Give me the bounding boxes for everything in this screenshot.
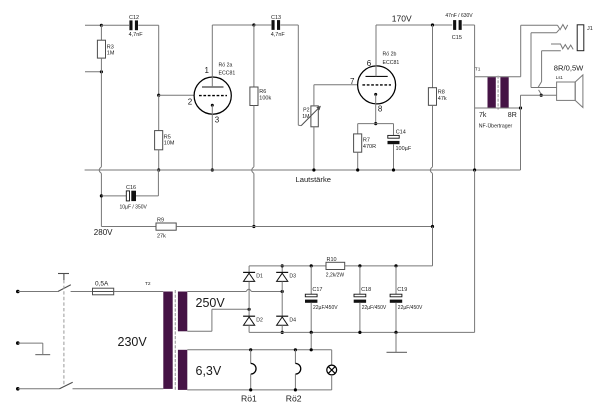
node cathode 1 ground junction [211, 168, 214, 171]
resistor R6 [250, 25, 272, 106]
node D3-D4 junction [281, 290, 284, 293]
svg-text:ECC81: ECC81 [383, 60, 400, 66]
svg-text:0,5A: 0,5A [95, 280, 109, 287]
node input junction lower [100, 70, 103, 73]
wire grid 1 [159, 94, 195, 96]
node T1 secondary bottom junction [519, 106, 522, 109]
label NF-Uebertrager [479, 122, 513, 129]
label Lautstaerke [296, 175, 331, 184]
svg-text:D1: D1 [256, 274, 263, 280]
svg-text:4,7nF: 4,7nF [129, 32, 144, 38]
wire B+ rail right [345, 265, 433, 267]
node R8-280V junction [431, 225, 434, 228]
triode U-Roe2a envelope [194, 77, 231, 114]
wire T1 bottom to ground rail [520, 108, 522, 170]
resistor R7 [354, 124, 376, 170]
node R5 ground junction [157, 168, 160, 171]
diode D1 [243, 266, 263, 282]
loudspeaker Ls1 [557, 75, 583, 108]
svg-text:230V: 230V [118, 335, 148, 349]
svg-text:C12: C12 [129, 15, 139, 21]
wire T1 primary bottom [475, 77, 521, 108]
switch link dashed [63, 280, 65, 385]
svg-text:22µF/450V: 22µF/450V [398, 305, 423, 311]
pin 2 label [188, 98, 193, 107]
switch S1 pole A [58, 285, 93, 292]
wire P2 bottom to ground [313, 127, 315, 170]
svg-text:6,3V: 6,3V [196, 364, 222, 378]
node D3 top junction [281, 264, 284, 267]
svg-text:2: 2 [188, 98, 193, 107]
node 170V-R8 junction [431, 23, 434, 26]
node heater Roe2 top junction [294, 348, 297, 351]
jack J1 sleeve line [542, 50, 561, 52]
svg-text:7: 7 [350, 77, 355, 86]
svg-text:J1: J1 [587, 26, 593, 32]
svg-text:470R: 470R [363, 144, 376, 150]
node cathode 2 junction [374, 122, 377, 125]
capacitor C13 [254, 15, 298, 38]
label tube Roe 2a [219, 63, 236, 77]
wire 280V rail right [176, 226, 432, 228]
label J1 [587, 26, 593, 32]
node mains live terminal [16, 290, 20, 294]
node heater Roe2 bottom junction [294, 388, 297, 391]
node heater Roe1 top junction [249, 348, 252, 351]
svg-text:R6: R6 [259, 89, 266, 95]
node mains earth terminal [16, 341, 20, 345]
cathode Roe2a [211, 104, 214, 170]
svg-text:D4: D4 [289, 317, 296, 323]
svg-text:3: 3 [215, 116, 220, 125]
wire negative to heater rail [310, 332, 312, 349]
grid Roe2a [199, 95, 227, 97]
node C14 ground junction [392, 168, 395, 171]
svg-text:C16: C16 [126, 185, 136, 191]
label 250V [196, 296, 226, 310]
label 6,3V [196, 364, 222, 378]
switch S1 pole B [60, 382, 164, 389]
node heater Roe1 bottom junction [249, 388, 252, 391]
svg-text:R7: R7 [363, 138, 370, 144]
label Roe2 [286, 394, 302, 404]
wire 250V top to bridge [187, 289, 282, 291]
svg-text:22µF/450V: 22µF/450V [313, 305, 338, 311]
wire R6 to 280V rail [252, 106, 254, 227]
label 280V [94, 228, 113, 237]
wire T1 primary bottom to ground junction [474, 108, 476, 170]
svg-text:1M: 1M [302, 114, 309, 120]
svg-text:C13: C13 [271, 15, 281, 21]
heater Roe2 [295, 350, 300, 390]
resistor R9 [156, 218, 176, 240]
ground symbol B- [387, 332, 408, 352]
svg-text:170V: 170V [392, 13, 412, 23]
label Roe1 [241, 394, 257, 404]
svg-text:27k: 27k [157, 234, 166, 240]
capacitor C14 [376, 124, 412, 170]
node C17 top junction [310, 264, 313, 267]
svg-text:R9: R9 [157, 218, 164, 224]
svg-text:100k: 100k [259, 96, 271, 102]
node C19 top junction [394, 264, 397, 267]
svg-text:T1: T1 [475, 67, 481, 73]
label tube Roe 2b [383, 52, 400, 67]
svg-text:280V: 280V [94, 228, 113, 237]
label T2 [145, 281, 151, 287]
node D4 bottom junction [281, 331, 284, 334]
resistor R3 [97, 25, 114, 72]
wire mains live [18, 291, 58, 293]
svg-text:8R: 8R [508, 112, 517, 119]
wire speaker lower terminal [521, 95, 557, 108]
svg-text:C15: C15 [452, 35, 462, 41]
resistor R5 [155, 95, 175, 170]
svg-text:47nF / 630V: 47nF / 630V [445, 13, 473, 19]
wire B+ rail [249, 265, 326, 267]
wire heater bottom rail [187, 389, 331, 391]
node C18 top junction [358, 264, 361, 267]
wire D1 to D2 [248, 281, 250, 316]
wire jack to speaker switch [530, 33, 532, 88]
node C18 bottom junction [358, 331, 361, 334]
jack J1 switch contact upper [531, 30, 559, 33]
svg-text:C19: C19 [397, 287, 407, 293]
svg-text:10µF / 350V: 10µF / 350V [120, 205, 148, 211]
resistor R8 [428, 25, 447, 105]
svg-text:2,2k/2W: 2,2k/2W [326, 273, 345, 279]
transformer T2 core [174, 290, 176, 390]
wire input stub lower [85, 71, 101, 73]
pin 1 label [205, 66, 210, 75]
wire anode 2 lead [375, 25, 377, 76]
node P2 ground junction [312, 168, 315, 171]
pin 7 label [350, 77, 355, 86]
wire C12 to grid node [158, 25, 160, 95]
triode U-Roe2b envelope [358, 66, 396, 104]
label T1 [475, 67, 481, 73]
transformer T1 core [497, 76, 499, 110]
svg-text:C17: C17 [312, 287, 322, 293]
transformer T1 secondary winding [500, 77, 508, 108]
wire negative rail to ground rail [474, 170, 476, 332]
lamp [327, 350, 337, 390]
svg-text:C14: C14 [396, 130, 406, 136]
wire mains neutral [18, 388, 60, 390]
node grid 1 junction [157, 94, 160, 97]
svg-text:250V: 250V [196, 296, 226, 310]
svg-text:ECC81: ECC81 [219, 71, 236, 77]
wire D3 to D4 [281, 281, 283, 316]
wire R8 to 280V rail [430, 105, 432, 226]
wire 280V to B+ rail [432, 227, 434, 266]
node heater-B- junction [310, 348, 313, 351]
wire ground rail [85, 169, 521, 171]
jack J1 body [577, 25, 584, 51]
label 230V [118, 335, 148, 349]
svg-text:Lautstärke: Lautstärke [296, 175, 331, 184]
node D1-D2 junction [248, 308, 251, 311]
transformer T1 primary winding [475, 77, 521, 108]
node speaker junction [540, 94, 543, 97]
node C17 bottom junction [310, 331, 313, 334]
anode plate Roe2b [366, 75, 388, 77]
svg-text:Ls1: Ls1 [556, 75, 564, 80]
node R7 ground junction [356, 168, 359, 171]
heater Roe1 [251, 350, 256, 390]
switch actuator [58, 274, 69, 281]
wire C15 to T1 primary [474, 25, 476, 77]
wire C13 to P2 wiper [298, 25, 301, 126]
svg-text:T2: T2 [145, 281, 151, 287]
capacitor C16 [101, 170, 158, 211]
label 170V [392, 13, 412, 23]
svg-text:8: 8 [378, 105, 383, 114]
anode plate Roe2a [202, 86, 224, 88]
svg-text:6: 6 [367, 59, 372, 68]
svg-text:NF-Übertrager: NF-Übertrager [479, 122, 513, 129]
svg-text:47k: 47k [438, 96, 447, 102]
wire input stub top [85, 24, 101, 26]
svg-text:1M: 1M [107, 51, 115, 57]
capacitor C17 [305, 266, 338, 333]
label 7k [479, 112, 487, 119]
pin 6 label [367, 59, 372, 68]
svg-text:7k: 7k [479, 112, 487, 119]
svg-text:1: 1 [205, 66, 210, 75]
capacitor C19 [390, 266, 423, 333]
diode D4 [276, 316, 296, 332]
transformer T2 secondary 6,3V winding [178, 350, 187, 390]
svg-text:R8: R8 [438, 90, 445, 96]
label 8R [508, 112, 517, 119]
wire anode 1 rail [212, 24, 254, 26]
svg-text:D2: D2 [256, 317, 263, 323]
svg-text:P2: P2 [303, 108, 309, 114]
capacitor C18 [354, 266, 387, 333]
wire speaker upper terminal [531, 87, 557, 89]
svg-text:R10: R10 [327, 257, 337, 263]
pin 3 label [215, 116, 220, 125]
wire 250V bottom to bridge [187, 309, 249, 331]
jack J1 tip contact [558, 25, 568, 30]
svg-text:D3: D3 [289, 274, 296, 280]
capacitor C15 [445, 13, 474, 41]
wire negative rail [249, 331, 475, 333]
svg-text:C18: C18 [361, 287, 371, 293]
node input junction top [100, 24, 103, 27]
potentiometer P2 [301, 106, 321, 127]
node R6-280V junction [252, 225, 255, 228]
wire 280V rail left [101, 226, 156, 228]
jack J1 ring contact [551, 44, 573, 49]
wire heater top rail [187, 349, 331, 351]
grid Roe2b [362, 84, 391, 86]
wire secondary top to jack [521, 25, 558, 76]
svg-text:Rö 2b: Rö 2b [383, 52, 397, 58]
svg-text:4,7nF: 4,7nF [271, 32, 286, 38]
svg-text:Rö1: Rö1 [241, 394, 257, 404]
wire fuse to T2 [114, 291, 164, 293]
diode D2 [243, 316, 263, 332]
pin 8 label [378, 105, 383, 114]
cathode Roe2b [374, 93, 377, 124]
node C16 junction [100, 194, 103, 197]
svg-text:22µF/450V: 22µF/450V [362, 305, 387, 311]
jack NC contact blade [538, 51, 542, 94]
svg-text:100µF: 100µF [396, 146, 412, 152]
node T1 ground junction [473, 168, 476, 171]
svg-text:Rö2: Rö2 [286, 394, 302, 404]
fuse 0,5A [93, 280, 114, 295]
label Ls1 [556, 75, 564, 80]
transformer T2 primary winding [163, 292, 172, 389]
svg-text:Rö 2a: Rö 2a [219, 63, 233, 69]
diode D3 [276, 266, 296, 282]
svg-text:8R/0,5W: 8R/0,5W [554, 63, 584, 72]
svg-text:10M: 10M [164, 141, 175, 147]
ground mains earth [18, 343, 50, 355]
wire 170V rail [376, 24, 452, 26]
capacitor C12 [101, 15, 158, 38]
wire anode 1 lead [211, 25, 213, 87]
node anode1-R6 junction [252, 23, 255, 26]
wire P2 top to grid 2 [314, 85, 358, 106]
label 8R/0,5W [554, 63, 584, 72]
wire left vertical to 280V [99, 72, 101, 227]
node C19 bottom junction [394, 331, 397, 334]
node mains neutral terminal [16, 387, 20, 391]
transformer T2 secondary 250V winding [178, 292, 187, 332]
resistor R10 [326, 257, 345, 279]
